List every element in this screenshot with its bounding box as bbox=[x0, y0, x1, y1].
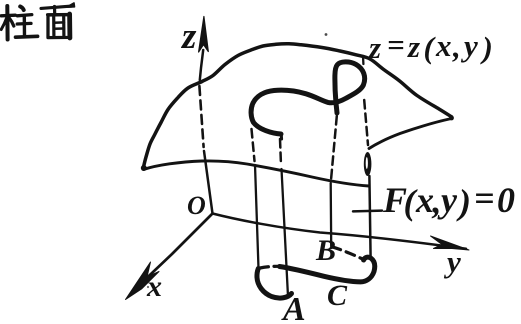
right silhouette lens blob bbox=[364, 152, 372, 176]
svg-text:y: y bbox=[460, 28, 478, 63]
bottom curve hidden dash run B bbox=[332, 247, 362, 259]
bottom curve main run and right curl bbox=[280, 257, 375, 282]
z-axis lower solid to origin bbox=[204, 151, 213, 214]
svg-text:x: x bbox=[415, 180, 434, 220]
scan speck near apex bbox=[325, 33, 328, 36]
svg-text:): ) bbox=[456, 182, 471, 222]
bottom curve front-left U hook bbox=[257, 269, 292, 299]
bottom curve hidden dash run A bbox=[260, 266, 279, 268]
svg-text:=: = bbox=[387, 27, 405, 62]
title text 柱面 stroke drawing: char 柱 bbox=[1, 6, 37, 40]
cylinder right wall bbox=[369, 176, 370, 258]
surface front edge right (from cusp) bbox=[369, 119, 452, 149]
ruling R4 upper dash bbox=[362, 56, 365, 64]
z-axis hidden dashed part bbox=[199, 86, 203, 147]
ruling R1 dashed (hidden above front edge) bbox=[252, 129, 255, 161]
svg-text:C: C bbox=[327, 279, 348, 312]
ruling R2 solid bbox=[282, 169, 289, 297]
title text 柱面 stroke drawing: char 面 bbox=[41, 3, 75, 38]
svg-text:): ) bbox=[480, 30, 493, 65]
svg-text:z: z bbox=[407, 29, 420, 64]
z-axis arrowhead bbox=[199, 17, 209, 53]
label z=z(x,y) equation bbox=[368, 27, 493, 65]
ruling R3 solid bbox=[330, 183, 333, 246]
svg-text:y: y bbox=[443, 244, 461, 279]
svg-text:,: , bbox=[432, 181, 442, 221]
label F(x,y)=0 equation bbox=[382, 178, 515, 222]
svg-text:z: z bbox=[368, 30, 381, 65]
y-axis bbox=[213, 214, 467, 249]
ruling R3 dashed bbox=[331, 116, 337, 180]
svg-text:z: z bbox=[180, 16, 197, 57]
top curve tail stub bbox=[280, 134, 283, 139]
y-axis arrowhead bbox=[431, 236, 470, 250]
scan speck left margin bbox=[147, 286, 149, 288]
svg-text:y: y bbox=[437, 180, 458, 220]
svg-text:(: ( bbox=[424, 30, 437, 65]
svg-text:O: O bbox=[187, 191, 206, 220]
z-axis solid upper bbox=[200, 50, 203, 80]
surface left tip dot bbox=[141, 165, 147, 171]
ruling R2 dashed bbox=[280, 139, 281, 165]
svg-text:x: x bbox=[146, 270, 162, 303]
x-axis arrowhead bbox=[126, 262, 160, 300]
surface upper outline bbox=[144, 44, 452, 167]
svg-text:B: B bbox=[315, 234, 336, 267]
surface cusp dot bbox=[449, 116, 454, 121]
surface front edge bbox=[144, 161, 370, 186]
svg-text:=: = bbox=[474, 178, 495, 218]
svg-text:x: x bbox=[435, 28, 452, 63]
ruling R1 solid bbox=[255, 165, 259, 269]
svg-text:0: 0 bbox=[497, 180, 515, 220]
ruling R4 dashed bbox=[364, 100, 368, 145]
F label leader line bbox=[353, 209, 382, 212]
svg-text:A: A bbox=[281, 291, 306, 324]
top space curve (thick S on surface) bbox=[251, 62, 365, 134]
x-axis bbox=[133, 214, 213, 292]
svg-text:,: , bbox=[452, 29, 461, 64]
